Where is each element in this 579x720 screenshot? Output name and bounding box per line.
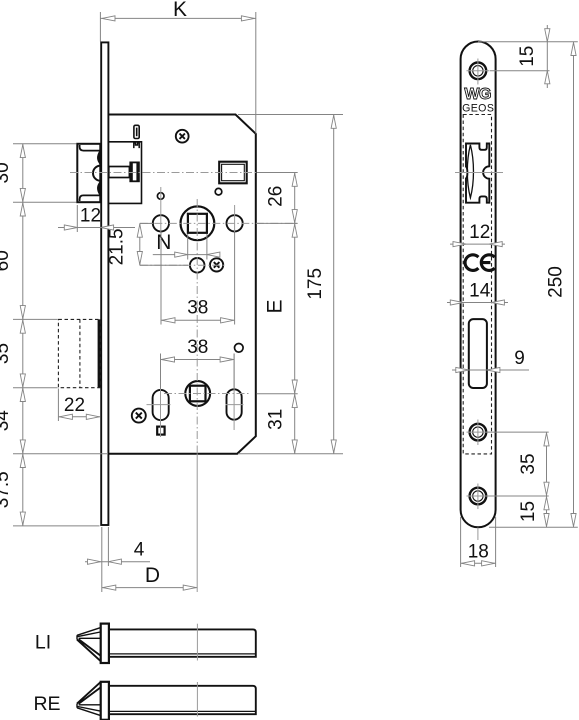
case outline behind plate (dashed) [463,115,491,454]
left chain extension lines [13,144,108,526]
dim 4 [85,527,150,566]
deadbolt cutout [469,319,487,388]
svg-text:35: 35 [518,453,539,474]
dim 9 [452,348,529,373]
dim 30 [0,144,25,202]
left hole column centerline [160,187,162,232]
lock case outline [109,115,256,454]
svg-text:12: 12 [80,206,101,227]
screw hole middle [470,424,487,441]
dim 26 [257,173,298,224]
label RE [33,693,60,715]
svg-text:35: 35 [0,343,13,364]
screw S3 [132,409,146,423]
svg-text:LI: LI [35,632,51,654]
dim 12 plate [450,222,505,247]
dim 35 right [487,432,549,496]
latch LI body [109,629,256,656]
svg-text:60: 60 [0,250,13,271]
oval hole right [227,389,242,419]
latch guide housing [109,142,142,204]
latch T-head [129,162,139,183]
svg-text:34: 34 [0,410,13,432]
latch box inner lips [80,145,100,201]
svg-text:K: K [173,0,187,21]
dim 34 [0,388,25,454]
dim 31 [266,394,298,454]
hole small mid-right [235,344,244,353]
latch front lens [467,145,473,198]
dim 35 left [0,319,25,387]
label LI [35,632,51,654]
dim N [153,231,220,260]
latch axis line right view [455,172,503,174]
svg-text:18: 18 [468,542,489,563]
latch shaft [109,167,130,178]
svg-text:175: 175 [305,268,326,300]
privacy follower [185,381,210,406]
GEOS label [462,102,494,114]
dim K [100,0,255,134]
cylinder axis horizontal centerline [140,264,225,266]
dim 175 [238,115,343,454]
svg-text:37.5: 37.5 [0,471,13,508]
dim 14 case [447,280,508,305]
adjustment tab upper [134,125,139,138]
svg-text:WG: WG [464,86,491,103]
adjustment tab lower [134,143,139,148]
latch LI head [77,628,100,661]
latch RE head [77,682,100,715]
cylinder hole [190,258,205,273]
screw hole top [470,63,487,80]
screw S1 [176,130,189,143]
faceplate deadbolt slot (solid black) [98,319,102,387]
screw hole bottom crosshair [467,484,490,541]
follower axis horizontal centerline [140,222,298,224]
oval hole left [153,390,169,420]
left hole column centerline lower [160,354,162,438]
svg-text:38: 38 [187,298,208,319]
dim E [257,223,298,393]
dim D [102,527,197,592]
CE mark [465,255,495,271]
svg-text:RE: RE [33,693,60,715]
oval axis right [226,404,244,406]
handle hole left [153,215,169,231]
svg-text:21.5: 21.5 [107,228,128,265]
dim 37.5 [0,454,25,526]
privacy follower horizontal centerline [164,393,250,395]
hole small upper-left [157,193,164,200]
right hole column centerline [234,205,236,232]
screw hole bottom [470,488,487,505]
oval axis left [147,404,171,406]
latch front view outline [466,144,489,203]
latch RE flange [101,682,109,720]
dim 60 [0,202,25,319]
svg-text:4: 4 [134,540,145,561]
dim 38 lower [161,337,235,389]
svg-text:GEOS: GEOS [462,102,494,114]
handle hole right [227,215,243,231]
svg-text:22: 22 [64,395,85,416]
svg-text:26: 26 [266,186,287,207]
WG logo [464,86,491,103]
svg-text:12: 12 [469,222,490,243]
svg-text:14: 14 [469,280,491,301]
stop block [219,162,247,184]
svg-text:E: E [264,299,287,313]
dim 250 [546,42,577,528]
main vertical centerline [196,199,198,592]
svg-text:15: 15 [517,46,538,67]
small square hole [157,427,164,435]
screw hole middle crosshair [467,420,490,446]
svg-text:N: N [156,231,171,254]
right hole column centerline lower [233,354,235,431]
hole small upper-right [215,188,222,195]
latch guide box [77,144,100,202]
faceplate front view [461,42,496,528]
screw hole top crosshair [467,59,490,85]
latch axis centerline [70,172,298,174]
svg-text:31: 31 [266,409,287,430]
screw S2 [210,258,223,271]
svg-text:9: 9 [514,348,525,369]
dim 21.5 [107,223,189,265]
dim 12 latch projection [58,205,135,232]
faceplate side view [101,42,108,525]
dim 38 upper [161,233,235,325]
dim 18 [461,517,496,567]
follower hub [181,206,215,240]
dim 15 top [478,25,578,88]
dim 22 [58,389,100,422]
latch funnel wedges [97,151,100,195]
latch LI flange [101,624,109,663]
latch RE body [109,686,256,714]
latch LI section axis [196,624,198,661]
deadbolt pocket (dashed) [58,319,100,387]
dim 15 bottom [489,496,578,527]
svg-text:38: 38 [187,337,208,358]
svg-text:D: D [145,564,160,587]
svg-text:250: 250 [546,266,567,298]
latch RE section axis [196,682,198,717]
latch nose semicircle [93,166,101,181]
svg-text:30: 30 [0,162,13,183]
svg-text:15: 15 [518,501,539,522]
